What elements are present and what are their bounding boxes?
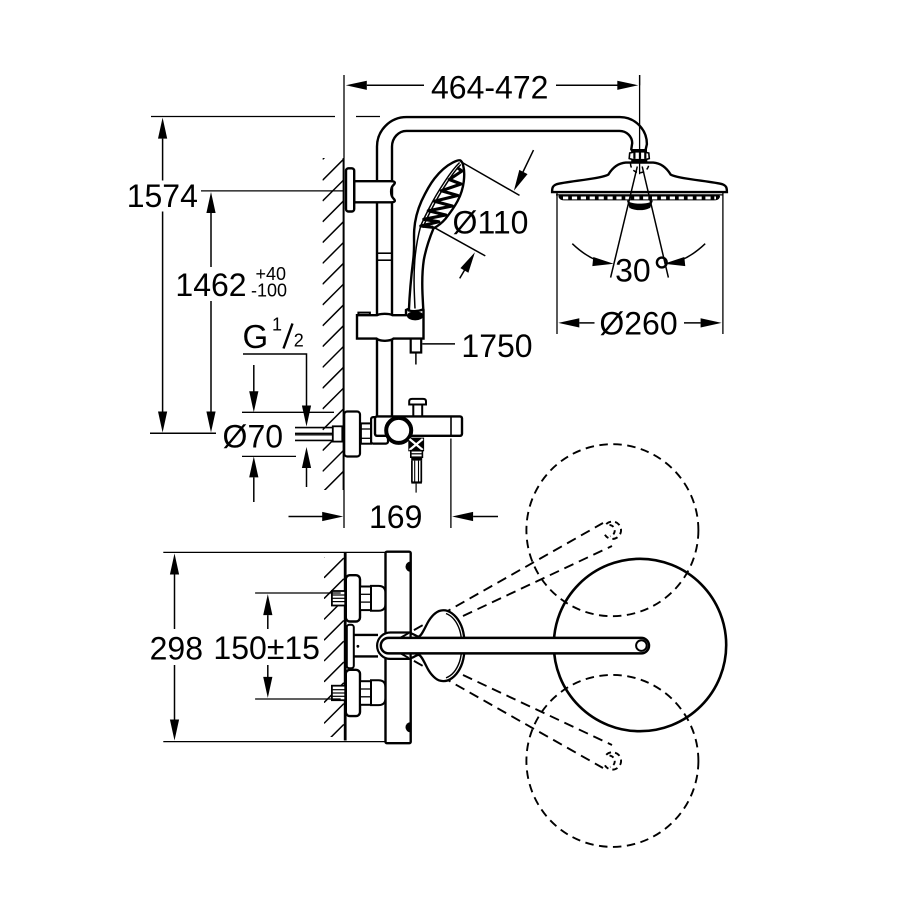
- s-union nut: [361, 423, 371, 443]
- hand shower bell (top view): [411, 610, 465, 681]
- dashed arm lower: [400, 653, 612, 768]
- supply escutcheon bottom (lower view): [346, 670, 360, 716]
- valve body (lower view): [386, 552, 411, 744]
- head shower dish: [552, 163, 727, 211]
- svg-text:1462: 1462: [175, 267, 246, 303]
- solid circle head shower (top view): [554, 559, 726, 731]
- shower outlet connector: [409, 438, 424, 492]
- svg-text:30: 30: [615, 252, 651, 288]
- svg-text:Ø70: Ø70: [223, 419, 283, 455]
- wall hatching upper: [323, 139, 344, 514]
- svg-text:Ø110: Ø110: [453, 204, 529, 240]
- supply nipple bottom (lower view): [332, 686, 345, 701]
- center escutcheon (lower view): [347, 625, 360, 669]
- hand shower holder: [357, 309, 424, 341]
- wall hatching lower: [324, 537, 344, 765]
- dashed circle lower: [526, 675, 698, 847]
- svg-text:G: G: [243, 318, 269, 355]
- supply nut top (lower view): [360, 587, 371, 611]
- pivot stadium (lower view): [377, 633, 411, 659]
- dimension 150 +-15: [213, 593, 340, 699]
- dimension 1750 leader: [422, 328, 532, 364]
- dimension 1574: [127, 117, 380, 434]
- dimension Ø70: [223, 365, 334, 502]
- svg-text:1574: 1574: [127, 178, 198, 214]
- thermostat body: [375, 416, 462, 435]
- svg-text:-100: -100: [251, 280, 287, 300]
- hand shower hose nipple: [411, 339, 422, 365]
- head shower centerline: [639, 75, 641, 174]
- spray angle lines: [611, 167, 669, 278]
- dimension 169: [289, 439, 499, 535]
- rail union seam: [377, 253, 392, 260]
- svg-text:464-472: 464-472: [431, 70, 548, 106]
- dashed circle upper: [526, 444, 698, 616]
- svg-text:298: 298: [150, 630, 203, 666]
- svg-text:150±15: 150±15: [213, 630, 320, 666]
- svg-text:169: 169: [369, 499, 422, 535]
- svg-text:Ø260: Ø260: [599, 305, 677, 341]
- dimension 464-472: [346, 70, 640, 106]
- diverter knob: [409, 399, 426, 417]
- supply pipe at wall: [295, 426, 349, 441]
- label G 1/2: [243, 314, 312, 487]
- dimension 298: [150, 552, 386, 741]
- supply adapter top (lower view): [371, 586, 386, 611]
- thermostat inlet adapter: [371, 417, 388, 444]
- dashed arm upper: [400, 523, 612, 638]
- head shower swivel nut: [629, 149, 649, 162]
- dimension Ø110: [432, 150, 534, 278]
- supply nipple top (lower view): [332, 591, 345, 606]
- supply escutcheon top (lower view): [346, 575, 360, 621]
- shower pipe (riser and top arm): [377, 117, 647, 417]
- thermostat escutcheon: [344, 412, 360, 457]
- wall line upper: [343, 75, 345, 528]
- temperature handle circle: [386, 418, 411, 443]
- svg-text:1: 1: [272, 314, 282, 334]
- supply adapter bottom (lower view): [371, 680, 386, 705]
- dashed cap upper: [605, 522, 621, 539]
- wall bracket: [346, 168, 395, 211]
- center tube (lower view): [354, 635, 378, 657]
- hand shower: [409, 160, 464, 311]
- dimension 1462 +40 -100: [175, 191, 343, 433]
- dimension Ø260: [557, 193, 723, 341]
- svg-text:2: 2: [294, 331, 304, 351]
- dashed cap lower: [605, 752, 621, 769]
- shower arm bar (top view): [381, 638, 649, 654]
- supply nut bottom (lower view): [360, 681, 371, 705]
- svg-text:1750: 1750: [461, 328, 532, 364]
- wall line lower: [344, 553, 347, 741]
- head shower ball joint dashed: [631, 164, 649, 173]
- label 30 deg: [615, 252, 667, 288]
- spray angle arrows: [572, 244, 705, 269]
